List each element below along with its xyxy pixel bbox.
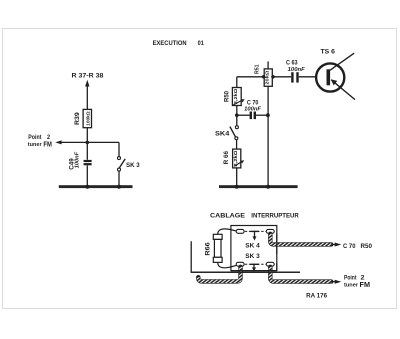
svg-text:SK4: SK4 — [215, 131, 230, 138]
svg-text:R 37-R 38: R 37-R 38 — [72, 72, 104, 79]
svg-text:tuner: tuner — [344, 283, 358, 289]
svg-text:2,2kΩ: 2,2kΩ — [233, 150, 238, 166]
svg-text:INTERRUPTEUR: INTERRUPTEUR — [251, 213, 299, 220]
svg-text:100kΩ: 100kΩ — [86, 111, 91, 126]
svg-text:R50: R50 — [225, 90, 231, 102]
svg-text:FM: FM — [43, 142, 52, 149]
svg-text:R50: R50 — [361, 243, 373, 250]
svg-text:2,2kΩ: 2,2kΩ — [233, 88, 238, 104]
svg-text:EXECUTION: EXECUTION — [153, 40, 187, 47]
svg-text:100nF: 100nF — [74, 151, 80, 168]
svg-text:SK 3: SK 3 — [126, 162, 140, 169]
svg-text:tuner: tuner — [28, 142, 42, 148]
svg-text:SK 3: SK 3 — [245, 253, 260, 260]
svg-text:2: 2 — [361, 275, 366, 282]
svg-text:20kΩ: 20kΩ — [265, 70, 270, 84]
svg-text:100nF: 100nF — [288, 67, 306, 73]
svg-text:RA 176: RA 176 — [306, 293, 327, 300]
svg-text:R51: R51 — [255, 65, 261, 75]
svg-text:SK 4: SK 4 — [245, 242, 260, 249]
svg-text:Point: Point — [28, 134, 42, 141]
svg-text:R39: R39 — [75, 111, 81, 124]
svg-text:100nF: 100nF — [244, 106, 261, 112]
svg-text:C 70: C 70 — [343, 243, 356, 250]
svg-text:CABLAGE: CABLAGE — [210, 213, 245, 220]
svg-text:2: 2 — [47, 134, 51, 141]
svg-text:FM: FM — [360, 282, 371, 289]
svg-text:R66: R66 — [205, 242, 211, 256]
svg-text:01: 01 — [198, 40, 205, 47]
svg-text:C 63: C 63 — [286, 60, 298, 67]
svg-text:TS 6: TS 6 — [321, 50, 336, 56]
svg-text:R 66: R 66 — [224, 150, 230, 164]
svg-text:Point: Point — [344, 275, 357, 282]
